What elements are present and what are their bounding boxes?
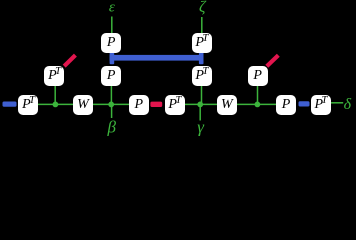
wire bottom segment 3 bbox=[183, 103, 219, 105]
tensor PT1 bottom row bbox=[18, 95, 38, 115]
red stub diagonal right bbox=[267, 55, 279, 66]
tensor PT column2 lower bbox=[192, 66, 212, 86]
label beta bbox=[107, 118, 115, 135]
wire bottom segment 4 bbox=[235, 103, 277, 105]
tensor W1 bottom row bbox=[73, 95, 93, 115]
wire bottom segment 2 bbox=[92, 103, 131, 105]
tensor PT upper-left bbox=[44, 66, 64, 86]
label epsilon bbox=[109, 1, 115, 16]
wire bottom segment 1 bbox=[37, 103, 75, 105]
junction j3 bbox=[197, 102, 203, 108]
tensor PT2 bottom row bbox=[165, 95, 185, 115]
junction j4 bbox=[255, 102, 261, 108]
red stub bottom bbox=[150, 102, 162, 107]
junction j1 bbox=[53, 102, 59, 108]
tensor PT column2 top bbox=[192, 33, 212, 53]
blue bond bar horizontal bbox=[110, 55, 204, 61]
label delta bbox=[344, 97, 351, 113]
wire to delta bbox=[331, 102, 343, 104]
wire zeta leg bbox=[201, 17, 203, 34]
tensor W2 bottom row bbox=[217, 95, 237, 115]
blue stub right bbox=[299, 101, 310, 106]
red stub diagonal left bbox=[64, 55, 75, 66]
wire PT-ul to junction j1 bbox=[54, 85, 56, 104]
blue bond cap right bbox=[199, 52, 204, 64]
label zeta bbox=[199, 0, 205, 16]
label gamma bbox=[197, 118, 204, 135]
tensor P upper-right bbox=[248, 66, 268, 86]
blue bond cap left bbox=[110, 52, 115, 64]
wire col1 P to junction j2 bbox=[110, 86, 112, 104]
wire j2 to beta bbox=[111, 104, 113, 118]
tensor PT3 bottom row bbox=[311, 95, 331, 115]
wire col2 PT to junction j3 bbox=[201, 86, 203, 104]
wire j3 to gamma bbox=[199, 104, 201, 120]
wire P-ur to junction j4 bbox=[257, 85, 259, 104]
tensor P1 bottom row bbox=[129, 95, 149, 115]
junction j2 bbox=[108, 102, 114, 108]
blue stub left edge bbox=[3, 102, 17, 107]
tensor P2 bottom row bbox=[276, 95, 296, 115]
tensor P column1 lower bbox=[101, 66, 121, 86]
tensor P column1 top bbox=[101, 33, 121, 53]
wire epsilon leg bbox=[111, 17, 113, 35]
